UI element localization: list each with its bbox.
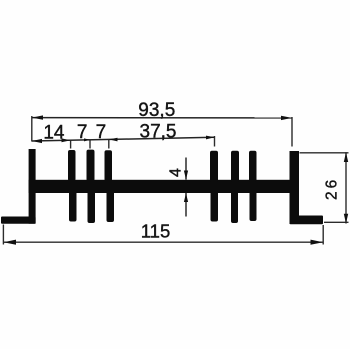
heatsink profile: left foot [1,217,36,224]
dimension line 14/7/7/37,5 [32,137,215,141]
svg-text:93,5: 93,5 [138,100,175,121]
dimension line 93,5 [32,117,292,119]
svg-text:14: 14 [43,122,65,143]
arrow 4 down [184,171,188,180]
arrow at 70.4 [62,138,71,142]
arrow 93,5 right [281,116,292,120]
arrow pair at 89.8 [84,138,90,141]
arrow 4 up [184,193,188,202]
svg-text:37,5: 37,5 [140,121,177,142]
heatsink profile: up fin 6 [249,151,257,182]
extension line fin2 [89,140,91,148]
svg-text:7: 7 [96,122,107,143]
heatsink profile: up fin 1 [68,150,76,181]
heatsink profile: right wall [290,151,300,224]
arrow row2 right [206,136,215,140]
arrow 26 down [344,214,348,224]
heatsink profile: down fin 4 [211,191,219,222]
extension line fin4 [214,136,216,147]
extension line 26 bottom [324,221,349,223]
svg-text:4: 4 [167,168,184,177]
arrow row2 left [32,139,42,143]
extension line right wall (93,5) [291,117,293,147]
heatsink profile: right foot [290,216,324,225]
extension line 115 right [322,225,324,245]
heatsink profile: base plate [29,180,299,193]
arrow 26 up [344,152,348,162]
svg-text:26: 26 [324,177,341,200]
heatsink profile: down fin 2 [88,191,96,223]
heatsink profile: down fin 1 [69,191,77,222]
dimension line 115 [3,241,323,243]
extension line fin1 [70,141,72,149]
heatsink profile: left upright [29,149,36,224]
heatsink profile: up fin 3 [105,150,113,181]
arrow 115 right [311,240,324,245]
svg-text:115: 115 [141,220,171,241]
heatsink profile: down fin 3 [107,191,115,222]
dimension line 26 [345,152,347,223]
extension line 115 left [2,225,4,245]
heatsink profile: down fin 6 [250,191,257,221]
extension line fin3 [108,140,110,149]
heatsink profile: down fin 5 [231,191,238,223]
extension line left (93,5 / row2) [31,116,33,142]
svg-text:7: 7 [77,122,88,143]
dimension line 4 upper [185,158,187,180]
extension line 26 top [300,152,349,154]
heatsink profile: up fin 2 [87,150,95,182]
heatsink profile: up fin 5 [231,151,239,182]
heatsink profile: up fin 4 [210,151,218,182]
dimension line 4 lower [185,193,187,217]
arrow 93,5 left [32,115,43,119]
arrow 115 left [3,240,16,245]
arrow at 108.8 [109,138,118,142]
